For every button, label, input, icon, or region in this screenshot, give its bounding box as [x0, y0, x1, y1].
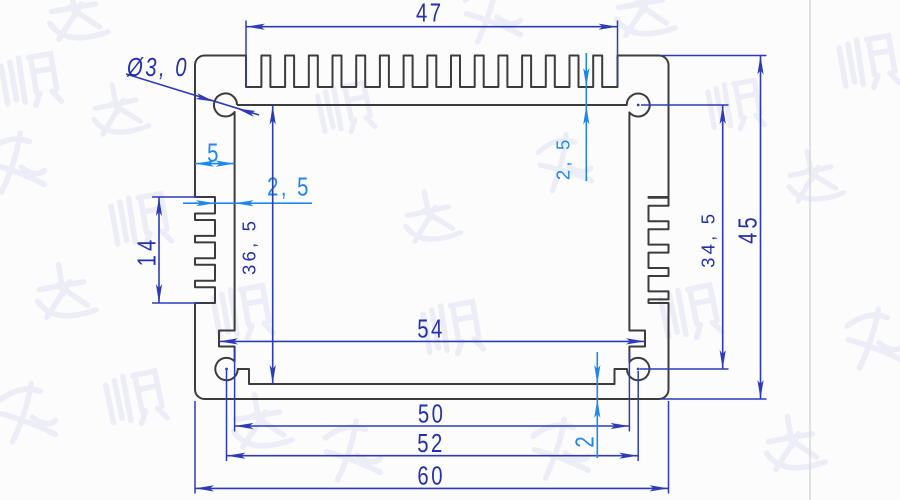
svg-text:2, 5: 2, 5 [267, 172, 311, 201]
svg-text:54: 54 [417, 314, 445, 343]
svg-text:2: 2 [570, 432, 599, 447]
dimension 2,5 (top plate thickness) [553, 53, 590, 181]
dimension 2,5 (wall web thickness) [183, 172, 312, 206]
svg-text:Ø3, 0: Ø3, 0 [126, 53, 189, 82]
svg-text:45: 45 [733, 213, 762, 244]
svg-text:47: 47 [416, 0, 444, 27]
svg-text:36, 5: 36, 5 [239, 218, 260, 275]
dimension 47 (fin zone width) [246, 0, 618, 87]
enclosure inner cavity profile with screw channels, PCB slots and floor steps [214, 93, 650, 384]
dimension 45 (overall height) [661, 56, 767, 400]
dimension 50 (inner cavity width) [235, 347, 630, 432]
dimension 36,5 (inner cavity height) [239, 106, 276, 385]
dimension 5 (side wall thickness) [195, 138, 235, 167]
svg-text:60: 60 [417, 461, 445, 490]
svg-text:5: 5 [207, 138, 221, 167]
dimension 34,5 (hole center vertical spacing) [225, 104, 728, 371]
svg-text:52: 52 [417, 429, 445, 458]
enclosure outer profile with heatsink fins and side serrations [195, 56, 669, 400]
dimension Ø3,0 (screw hole diameter leader) [126, 53, 259, 117]
dimension 60 (overall width) [195, 401, 669, 494]
svg-text:14: 14 [132, 236, 161, 267]
svg-text:50: 50 [418, 399, 446, 428]
page divider line [809, 0, 811, 500]
dimension 2 (bottom plate thickness) [570, 352, 600, 458]
dimension 54 (slot-to-slot width) [219, 314, 645, 345]
svg-text:2, 5: 2, 5 [553, 136, 574, 180]
svg-text:34, 5: 34, 5 [697, 211, 718, 268]
dimension 14 (serration zone height) [132, 197, 199, 303]
dimension 52 (boss center spacing) [227, 369, 639, 461]
